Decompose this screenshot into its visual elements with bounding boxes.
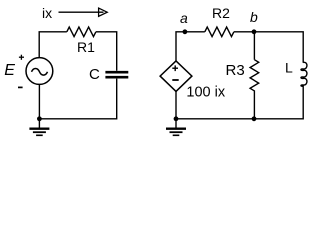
svg-text:R3: R3 — [226, 62, 245, 79]
source E circle — [26, 58, 53, 85]
wire: top-left corner and top rail to R1 — [39, 32, 67, 58]
minus sign of E — [18, 86, 23, 88]
wire: R2 to top right corner, down to L — [234, 32, 303, 63]
dependent source diamond 100ix — [160, 61, 192, 92]
svg-text:R1: R1 — [77, 39, 95, 55]
minus sign in diamond — [172, 79, 178, 81]
resistor R3 — [250, 60, 259, 119]
svg-text:b: b — [250, 9, 258, 25]
svg-text:a: a — [180, 10, 188, 26]
svg-text:R2: R2 — [212, 5, 230, 21]
resistor R2 — [205, 27, 234, 37]
svg-text:E: E — [4, 62, 15, 79]
junction dot left circuit — [37, 116, 42, 121]
resistor R1 — [67, 27, 96, 37]
inductor L coil — [301, 62, 307, 87]
sine wave — [32, 69, 48, 76]
bottom rail right circuit — [176, 87, 303, 119]
current arrow ix — [59, 8, 108, 16]
capacitor C — [105, 72, 128, 77]
wire: diamond bottom to bottom rail — [175, 91, 177, 118]
junction dot under R3 — [252, 116, 257, 121]
svg-text:100 ix: 100 ix — [186, 84, 225, 100]
node b dot — [252, 29, 257, 34]
wire: node b down to R3 — [253, 32, 255, 60]
junction dot under diamond — [174, 116, 179, 121]
wire: top rail R1 to right corner, down to capacitor — [96, 32, 117, 71]
svg-text:ix: ix — [42, 5, 52, 21]
ground right — [166, 119, 186, 136]
node a dot — [183, 29, 188, 34]
ground left — [29, 119, 49, 136]
plus sign of E — [19, 55, 24, 60]
plus sign in diamond — [172, 65, 178, 71]
wire: capacitor to bottom rail, left to junction — [39, 79, 116, 119]
wire: diamond top to corner, top rail to R2 — [176, 32, 205, 61]
svg-text:L: L — [285, 60, 293, 76]
svg-text:C: C — [89, 66, 100, 83]
